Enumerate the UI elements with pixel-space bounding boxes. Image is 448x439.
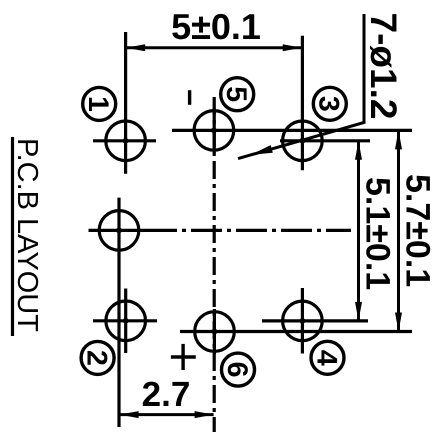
arrow down of dim 5.7 xyxy=(395,313,402,332)
svg-text:4: 4 xyxy=(310,350,342,366)
dimension line 5±0.1 xyxy=(126,46,302,49)
pad 4 center dot xyxy=(300,319,304,323)
svg-text:7-ø1.2: 7-ø1.2 xyxy=(363,13,404,120)
pad 5 vertical solid segment xyxy=(213,108,216,153)
arrow down of dim 5.1 xyxy=(355,302,362,321)
pad 6 vertical solid segment xyxy=(213,309,216,354)
svg-text:5.7±0.1: 5.7±0.1 xyxy=(398,174,436,287)
pad hole 3 xyxy=(283,121,323,161)
label circle 1 xyxy=(83,87,116,120)
pad hole 1 xyxy=(106,121,146,161)
pad 3 center dot xyxy=(300,139,304,143)
arrow right of dim 5±0.1 xyxy=(283,44,302,51)
leader arrowhead xyxy=(251,145,273,155)
pad 3 vertical crosshair / extension line of dim 5±0.1 xyxy=(301,36,304,170)
pad 2 horizontal crosshair xyxy=(93,319,157,322)
plus polarity mark horizontal xyxy=(171,355,196,358)
pad 2 vertical crosshair xyxy=(124,289,127,354)
dimension line 2.7 xyxy=(120,413,214,416)
svg-text:5: 5 xyxy=(220,86,252,102)
pad 5 center dot xyxy=(212,128,216,132)
pad 6 center dot xyxy=(212,329,216,333)
pad hole 5 xyxy=(194,111,234,151)
label circle 2 xyxy=(81,341,114,374)
pad hole 4 xyxy=(283,301,323,341)
minus polarity mark xyxy=(188,90,191,105)
dimension line 5.1±0.1 xyxy=(357,141,360,321)
dimension line 5.7±0.1 xyxy=(397,130,400,331)
svg-text:1: 1 xyxy=(82,96,114,112)
leader line of 7-ø1.2 xyxy=(238,14,364,159)
pad 4 vertical crosshair xyxy=(301,288,304,354)
pad 3 horizontal crosshair / extension of dim 5.1 xyxy=(280,139,370,142)
svg-text:5±0.1: 5±0.1 xyxy=(171,6,261,47)
pad 6 horizontal centerline / extension of dim 5.7 xyxy=(180,330,412,333)
pad 7 center dot xyxy=(117,228,121,232)
svg-text:6: 6 xyxy=(221,362,253,378)
arrow up of dim 5.1 xyxy=(355,141,362,160)
svg-text:2: 2 xyxy=(80,350,112,366)
label circle 6 xyxy=(222,353,255,386)
pad hole 6 xyxy=(195,312,235,352)
pad 1 horizontal crosshair xyxy=(93,139,156,142)
plus polarity mark vertical xyxy=(181,344,184,370)
svg-text:5.1±0.1: 5.1±0.1 xyxy=(358,177,396,290)
pad hole 2 xyxy=(106,301,146,341)
pad 5 horizontal centerline / extension of dim 5.7 xyxy=(172,129,412,132)
svg-text:3: 3 xyxy=(313,96,345,112)
svg-text:2.7: 2.7 xyxy=(142,375,191,414)
horizontal dash-dot centerline through pad 7 xyxy=(146,229,351,232)
vertical dash-dot centerline through pads 5 and 6 xyxy=(213,97,216,432)
label circle 5 xyxy=(221,78,254,111)
arrow up of dim 5.7 xyxy=(395,130,402,149)
svg-text:P.C.B LAYOUT: P.C.B LAYOUT xyxy=(11,138,43,332)
title underline xyxy=(11,137,14,336)
pad 1 center dot xyxy=(123,139,127,143)
arrow right of dim 2.7 xyxy=(195,411,214,418)
pad 7 vertical crosshair / extension line of dim 2.7 xyxy=(117,198,120,427)
pad 2 center dot xyxy=(124,319,128,323)
label circle 3 xyxy=(313,87,346,120)
pad 7 horizontal crosshair xyxy=(89,229,147,232)
label circle 4 xyxy=(311,341,344,374)
pad 1 vertical crosshair / extension line of dim 5±0.1 xyxy=(124,32,127,174)
arrow left of dim 2.7 xyxy=(120,411,139,418)
pad 4 horizontal crosshair / extension of dim 5.1 xyxy=(262,319,368,322)
arrow left of dim 5±0.1 xyxy=(126,44,145,51)
pad hole 7 (middle left) xyxy=(99,211,139,251)
